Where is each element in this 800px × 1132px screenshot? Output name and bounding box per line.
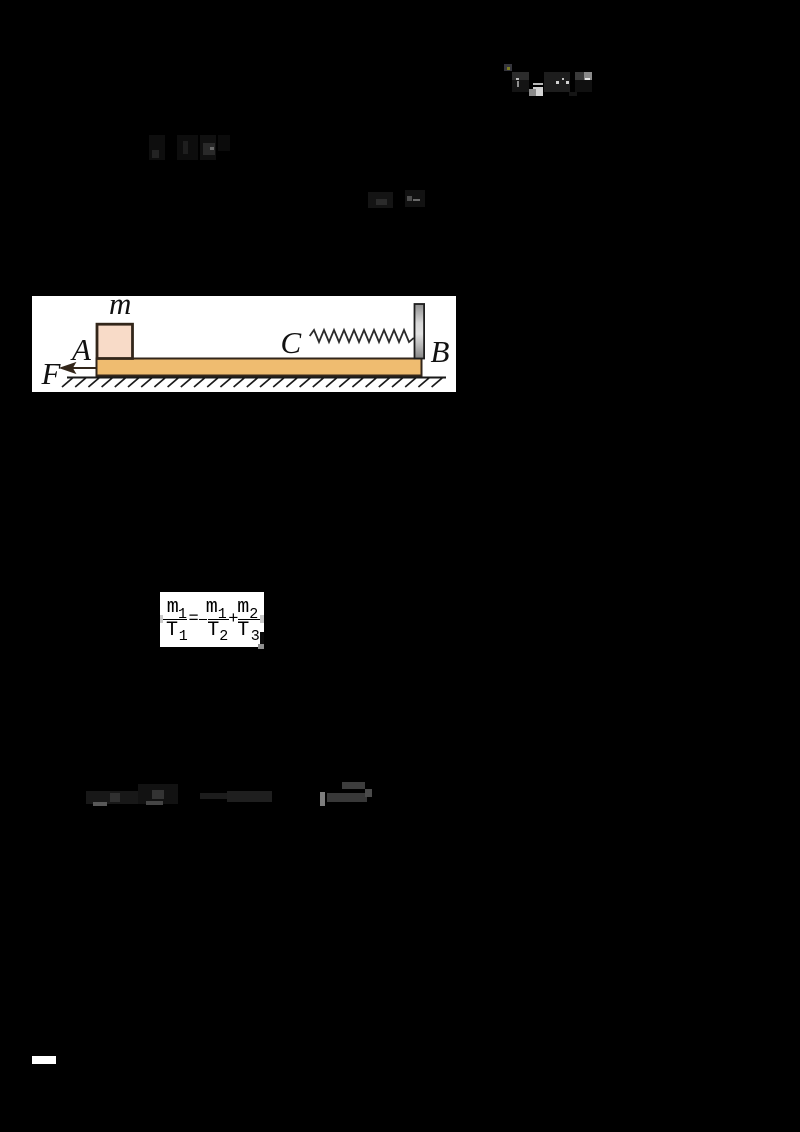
faint formula line (y~795) [86, 791, 138, 804]
wall post B [415, 304, 425, 359]
physics figure panel [32, 296, 456, 392]
faint formula smudge top-right (R = ...) [504, 64, 512, 71]
force F arrow [72, 367, 97, 369]
label A [72, 332, 91, 368]
block m [97, 324, 133, 358]
formula panel m1/T1 = -m1/T2 + m2/T3 [160, 592, 264, 647]
ground line [67, 377, 446, 379]
faint smudge row 2 (y~140) [149, 135, 165, 160]
label C [281, 325, 302, 361]
label B [431, 334, 450, 370]
spring C [310, 330, 414, 342]
plank AB [97, 359, 422, 376]
faint smudge row 3 (y~198) [368, 192, 393, 208]
ground hatching [62, 378, 443, 387]
label F [42, 356, 61, 392]
label m [109, 286, 131, 322]
white dash bottom-left [32, 1056, 56, 1064]
